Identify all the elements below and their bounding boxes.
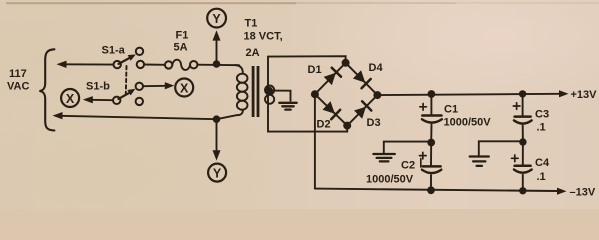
transformer center tap junction dot	[265, 87, 273, 95]
ground (C3/C4 mid)	[470, 157, 489, 166]
diode D2	[317, 101, 341, 130]
node C2 bottom junction dot	[427, 186, 435, 194]
capacitor C1 1000/50V	[420, 94, 491, 143]
wire: mid node to left ground	[384, 142, 431, 153]
node C3-C4 mid junction dot	[519, 138, 526, 145]
wire: return lead long bottom wire with left arrowhead	[53, 112, 217, 119]
node B junction dot	[213, 115, 221, 123]
node 117 VAC label	[7, 68, 29, 93]
svg-text:D1: D1	[308, 64, 322, 76]
wire: S1-b to left X with arrowhead	[83, 96, 113, 103]
svg-text:F1: F1	[176, 30, 189, 42]
node Y bottom circle	[208, 164, 226, 182]
diode D4	[353, 62, 384, 88]
svg-text:D4: D4	[369, 62, 384, 74]
node A junction dot	[213, 60, 221, 68]
node bridge right corner	[373, 91, 381, 99]
switch S1-b	[86, 81, 143, 106]
node C1 top junction dot	[428, 90, 436, 98]
capacitor C4 .1	[512, 142, 550, 191]
wire: S1-b upper contact to right X with arrowhead	[143, 82, 174, 89]
svg-text:S1-a: S1-a	[102, 45, 126, 57]
node bridge left corner	[311, 90, 319, 98]
wire: -13V bottom rail with arrowhead	[315, 188, 567, 195]
node bridge bottom corner	[343, 122, 351, 130]
svg-text:C2: C2	[401, 160, 415, 172]
svg-text:+13V: +13V	[571, 89, 598, 101]
wire: secondary bottom to bridge bottom corner	[268, 111, 347, 132]
node C4 bottom junction dot	[519, 187, 526, 194]
svg-text:Y: Y	[213, 167, 222, 181]
svg-text:1000/50V: 1000/50V	[444, 117, 492, 129]
svg-text:X: X	[66, 92, 75, 106]
wire: bridge left corner down to -13V rail	[314, 94, 316, 188]
svg-text:.1: .1	[537, 171, 546, 183]
net -13V label	[570, 187, 596, 199]
node C3 top junction dot	[519, 90, 526, 97]
svg-text:VAC: VAC	[7, 81, 29, 93]
capacitor C2 1000/50V	[366, 143, 441, 191]
transformer T1 core	[252, 66, 260, 117]
wire: mid node to right ground	[479, 141, 523, 155]
net +13V label	[571, 89, 598, 101]
ground (center tap)	[279, 103, 296, 110]
transformer T1 labels	[244, 18, 283, 60]
svg-text:Y: Y	[212, 12, 221, 26]
svg-text:D3: D3	[367, 117, 381, 129]
svg-text:.1: .1	[537, 122, 546, 134]
dashed mechanical link S1	[125, 66, 128, 95]
svg-text:C1: C1	[444, 104, 458, 116]
switch S1-a	[102, 45, 145, 69]
wire: fuse to primary with junction A	[198, 64, 240, 67]
svg-text:S1-b: S1-b	[86, 81, 110, 93]
node X right circle	[175, 79, 193, 97]
wire: arrow down to Y	[213, 121, 221, 161]
node X left circle	[61, 89, 79, 107]
wire: +13V top rail with arrowhead	[377, 90, 568, 97]
svg-text:T1: T1	[245, 18, 258, 30]
node bridge top corner	[342, 59, 350, 67]
wire: hot lead to S1-a with left arrowhead	[57, 61, 114, 68]
top border smudge	[6, 2, 599, 4]
svg-text:5A: 5A	[174, 42, 188, 54]
svg-text:C4: C4	[535, 157, 550, 169]
transformer T1 primary winding	[217, 65, 248, 119]
bridge rectifier diamond wires	[315, 63, 378, 126]
node C1-C2 mid junction dot	[427, 139, 435, 147]
svg-text:1000/50V: 1000/50V	[366, 174, 414, 186]
svg-text:18 VCT,: 18 VCT,	[244, 31, 283, 43]
svg-text:X: X	[180, 81, 189, 95]
wire: center tap to ground	[271, 91, 291, 101]
wire: arrow up to Y	[213, 30, 221, 62]
capacitor C3 .1	[513, 94, 549, 142]
brace for 117 VAC line cord	[39, 49, 54, 130]
node Y top circle	[207, 9, 226, 28]
svg-text:–13V: –13V	[570, 187, 596, 199]
wire: secondary top to bridge top corner	[268, 56, 346, 63]
fuse F1 5A	[144, 30, 197, 70]
diode D3	[354, 101, 381, 129]
transformer T1 secondary winding	[265, 57, 274, 112]
diode D1	[308, 64, 342, 85]
svg-text:C3: C3	[535, 109, 549, 121]
svg-text:117: 117	[9, 68, 27, 80]
ground (C1/C2 mid)	[373, 154, 394, 161]
svg-text:2A: 2A	[246, 47, 260, 59]
svg-text:D2: D2	[317, 119, 331, 131]
